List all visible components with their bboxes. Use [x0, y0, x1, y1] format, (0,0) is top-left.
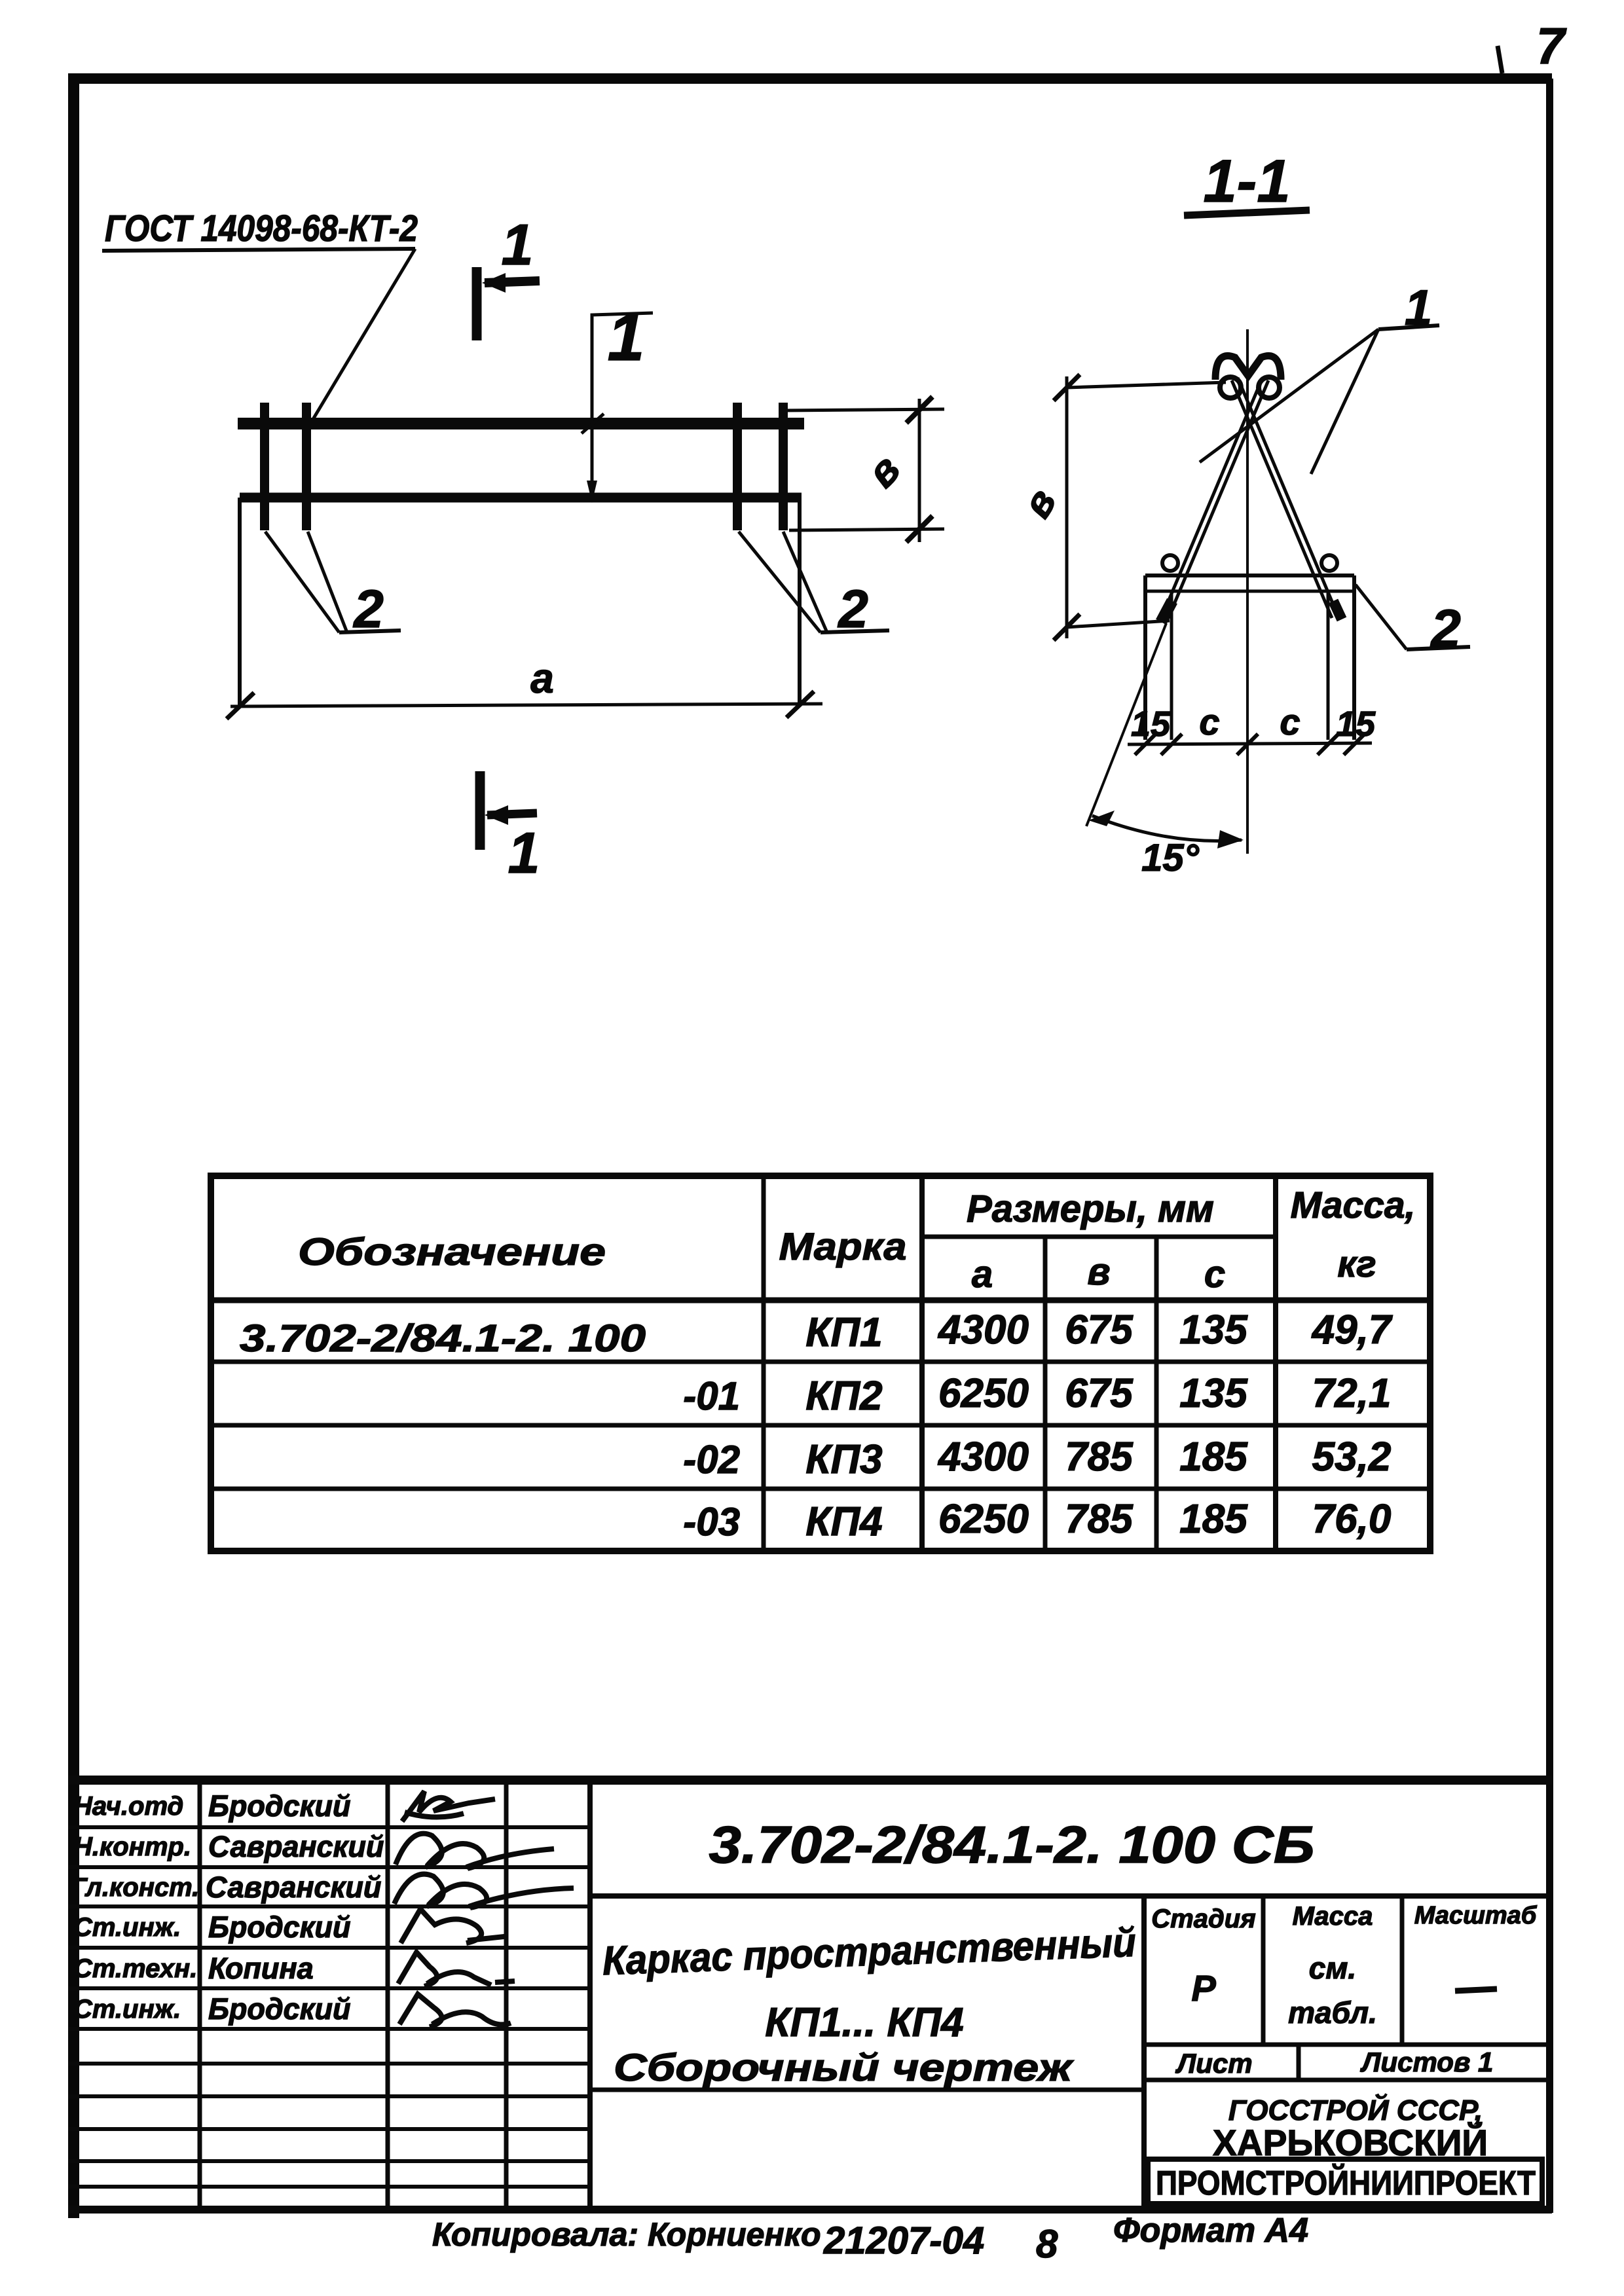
svg-text:Бродский: Бродский	[208, 1789, 350, 1823]
svg-text:Бродский: Бродский	[208, 1910, 350, 1944]
svg-text:Каркас пространственный: Каркас пространственный	[602, 1920, 1137, 1984]
svg-text:Марка: Марка	[779, 1226, 907, 1268]
svg-text:Бродский: Бродский	[208, 1992, 350, 2026]
svg-text:Н.контр.: Н.контр.	[73, 1832, 191, 1861]
svg-text:Савранский: Савранский	[208, 1830, 384, 1863]
svg-text:6250: 6250	[938, 1497, 1029, 1542]
svg-text:КП3: КП3	[805, 1437, 882, 1482]
svg-text:табл.: табл.	[1288, 1995, 1377, 2030]
svg-text:Масса: Масса	[1293, 1902, 1373, 1931]
svg-text:76,0: 76,0	[1312, 1497, 1392, 1542]
svg-text:1: 1	[502, 212, 534, 277]
svg-text:785: 785	[1065, 1497, 1134, 1542]
svg-text:6250: 6250	[938, 1371, 1029, 1416]
svg-text:ПРОМСТРОЙНИИПРОЕКТ: ПРОМСТРОЙНИИПРОЕКТ	[1156, 2164, 1536, 2202]
svg-text:135: 135	[1179, 1307, 1248, 1353]
svg-text:2: 2	[352, 579, 384, 639]
svg-text:1: 1	[1405, 280, 1432, 336]
svg-text:785: 785	[1065, 1434, 1134, 1480]
svg-text:15°: 15°	[1141, 837, 1200, 879]
svg-text:Стадия: Стадия	[1151, 1904, 1255, 1933]
svg-text:с: с	[1199, 701, 1219, 742]
svg-text:Савранский: Савранский	[206, 1870, 381, 1904]
svg-text:в: в	[1014, 481, 1065, 525]
svg-text:1: 1	[608, 300, 645, 374]
svg-text:а: а	[530, 655, 554, 702]
svg-text:Ст.инж.: Ст.инж.	[73, 1913, 181, 1942]
svg-text:49,7: 49,7	[1311, 1307, 1393, 1353]
svg-text:675: 675	[1065, 1307, 1134, 1353]
svg-text:-02: -02	[683, 1438, 740, 1482]
svg-text:8: 8	[1036, 2222, 1058, 2266]
svg-text:Копина: Копина	[208, 1952, 314, 1985]
svg-text:3.702-2/84.1-2. 100 СБ: 3.702-2/84.1-2. 100 СБ	[709, 1815, 1315, 1874]
svg-text:4300: 4300	[937, 1307, 1029, 1353]
svg-text:КП4: КП4	[805, 1499, 882, 1544]
svg-text:21207-04: 21207-04	[823, 2219, 984, 2262]
svg-text:КП1: КП1	[805, 1310, 882, 1355]
svg-text:а: а	[972, 1253, 993, 1296]
svg-text:с: с	[1280, 701, 1300, 742]
svg-text:ХАРЬКОВСКИЙ: ХАРЬКОВСКИЙ	[1213, 2122, 1488, 2163]
svg-text:185: 185	[1179, 1434, 1248, 1480]
svg-text:15: 15	[1131, 704, 1171, 744]
svg-text:Обозначение: Обозначение	[298, 1231, 606, 1273]
svg-text:7: 7	[1536, 17, 1567, 75]
svg-text:Формат А4: Формат А4	[1113, 2212, 1308, 2250]
svg-text:185: 185	[1179, 1497, 1248, 1542]
svg-text:Сборочный чертеж: Сборочный чертеж	[614, 2047, 1075, 2089]
svg-text:Листов 1: Листов 1	[1360, 2047, 1494, 2077]
svg-text:Ст.техн.: Ст.техн.	[73, 1954, 197, 1983]
svg-text:Лист: Лист	[1175, 2048, 1252, 2079]
svg-text:4300: 4300	[937, 1434, 1029, 1480]
svg-text:с: с	[1204, 1253, 1225, 1296]
svg-text:135: 135	[1179, 1371, 1248, 1416]
svg-text:Гл.конст.: Гл.конст.	[71, 1873, 199, 1902]
svg-text:53,2: 53,2	[1312, 1434, 1392, 1480]
svg-text:Копировала: Корниенко: Копировала: Корниенко	[432, 2216, 821, 2253]
svg-text:675: 675	[1065, 1371, 1134, 1416]
svg-text:2: 2	[837, 579, 868, 639]
svg-text:3.702-2/84.1-2. 100: 3.702-2/84.1-2. 100	[240, 1317, 646, 1360]
svg-text:Масса,: Масса,	[1291, 1184, 1416, 1226]
svg-text:см.: см.	[1309, 1951, 1356, 1985]
svg-text:в: в	[1087, 1250, 1110, 1293]
svg-text:КП1... КП4: КП1... КП4	[765, 2000, 963, 2045]
svg-text:Р: Р	[1191, 1967, 1216, 2009]
svg-text:-03: -03	[683, 1500, 740, 1544]
svg-text:Масштаб: Масштаб	[1414, 1902, 1538, 1929]
svg-text:1-1: 1-1	[1204, 148, 1291, 215]
svg-text:15: 15	[1336, 704, 1376, 744]
svg-text:1: 1	[508, 820, 540, 885]
svg-text:Ст.инж.: Ст.инж.	[73, 1995, 181, 2024]
svg-text:ГОСТ 14098-68-КТ-2: ГОСТ 14098-68-КТ-2	[105, 208, 418, 249]
svg-text:в: в	[857, 446, 909, 496]
svg-text:Размеры, мм: Размеры, мм	[967, 1188, 1214, 1230]
svg-text:72,1: 72,1	[1312, 1371, 1392, 1416]
svg-text:кг: кг	[1337, 1243, 1376, 1285]
svg-text:Нач.отд: Нач.отд	[73, 1792, 183, 1821]
svg-text:-01: -01	[683, 1374, 740, 1418]
svg-text:КП2: КП2	[805, 1374, 882, 1419]
svg-text:2: 2	[1430, 599, 1461, 659]
